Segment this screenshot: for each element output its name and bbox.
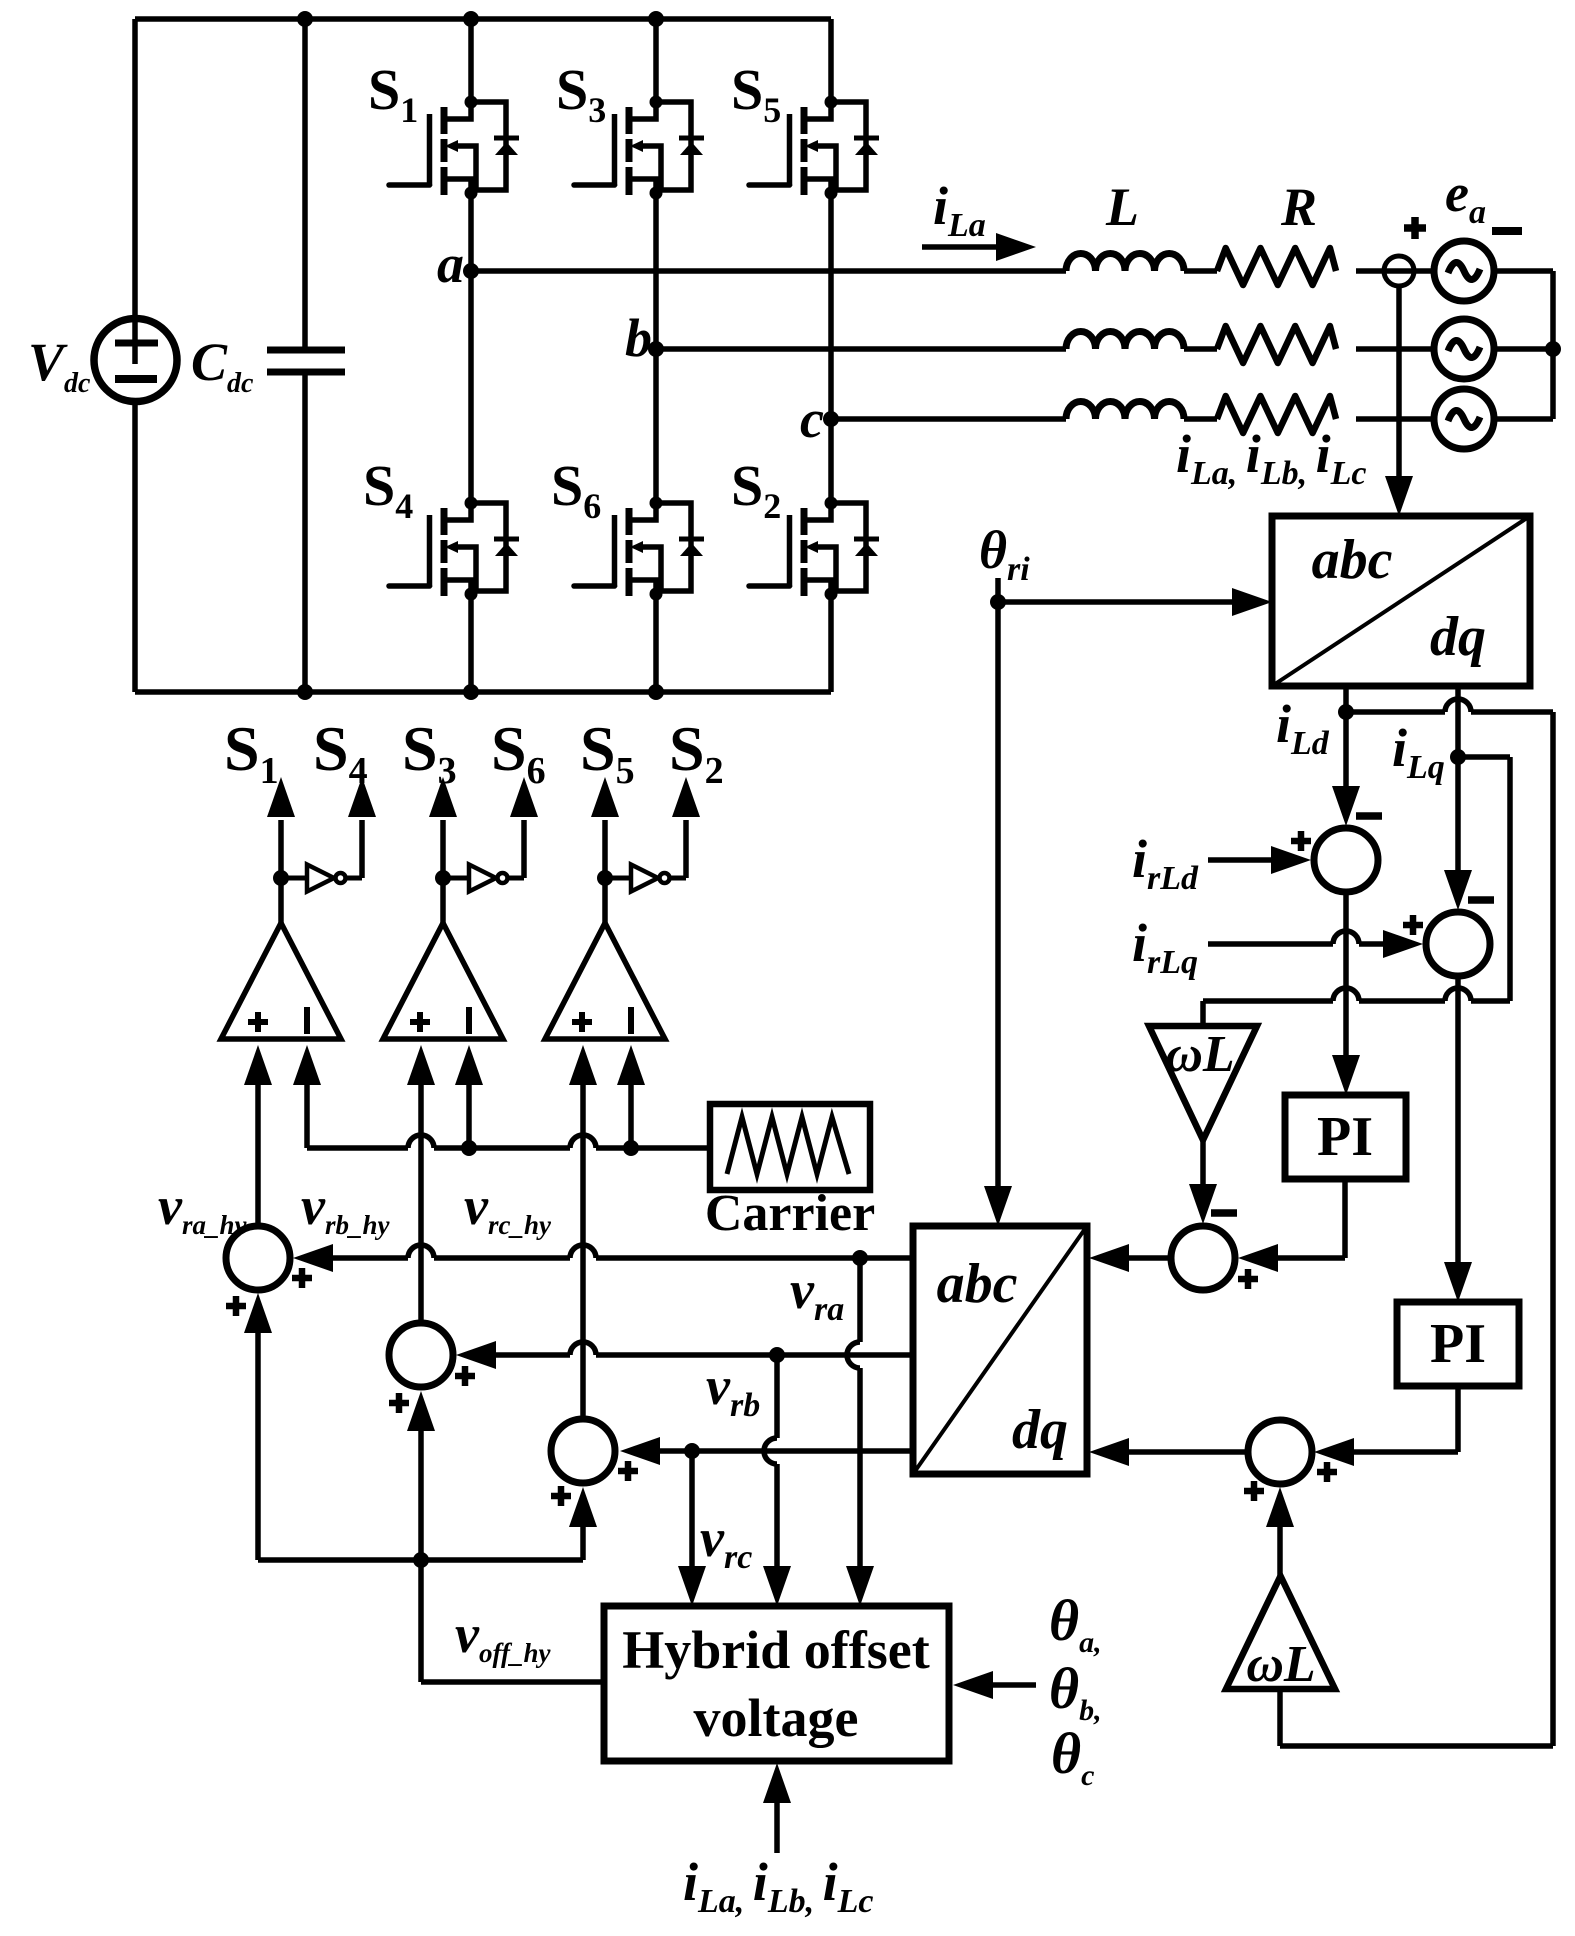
svg-text:b: b [625, 308, 652, 368]
svg-text:L: L [1105, 177, 1139, 237]
svg-text:ωL: ωL [1246, 1636, 1315, 1693]
svg-text:R: R [1280, 177, 1317, 237]
svg-text:ωL: ωL [1165, 1026, 1234, 1083]
svg-text:abc: abc [937, 1253, 1018, 1315]
svg-text:Hybrid offset: Hybrid offset [622, 1620, 929, 1680]
svg-text:dq: dq [1430, 606, 1486, 668]
svg-text:PI: PI [1317, 1106, 1373, 1168]
svg-text:a: a [437, 234, 464, 294]
svg-text:Carrier: Carrier [705, 1185, 875, 1242]
svg-text:PI: PI [1430, 1313, 1486, 1375]
svg-text:voltage: voltage [694, 1688, 859, 1748]
svg-text:abc: abc [1312, 529, 1393, 591]
svg-text:c: c [800, 389, 824, 449]
svg-text:dq: dq [1012, 1399, 1068, 1461]
